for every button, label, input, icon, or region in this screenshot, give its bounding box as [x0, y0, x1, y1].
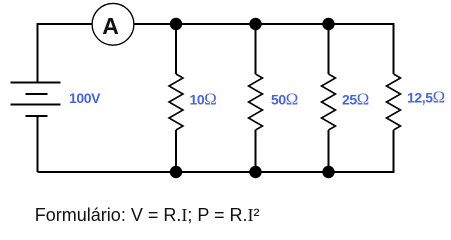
resistor R1 zigzag [169, 74, 183, 130]
resistor R4 zigzag [387, 74, 401, 130]
wire left edge upper (corner down to battery + plate) [37, 23, 39, 83]
wire branch 3 upper [328, 24, 330, 74]
svg-text:A: A [102, 13, 119, 39]
battery V1 plates [11, 83, 61, 117]
svg-text:100V: 100V [69, 90, 101, 106]
svg-text:10Ω: 10Ω [190, 89, 217, 108]
wire top-right from ammeter to top-right corner [134, 23, 394, 25]
wire left edge lower (battery - plate down to bottom corner) [37, 116, 39, 172]
svg-text:12,5Ω: 12,5Ω [407, 87, 445, 106]
wire right edge upper [393, 23, 395, 74]
svg-text:25Ω: 25Ω [342, 89, 369, 108]
junction node bottom 2 [249, 166, 261, 178]
resistor R2 zigzag [249, 74, 263, 130]
wire branch 2 upper [255, 24, 257, 74]
junction node top 3 [322, 18, 334, 30]
junction node bottom 1 [170, 166, 182, 178]
junction node top 2 [249, 18, 261, 30]
wire bottom rail [38, 171, 394, 173]
svg-text:50Ω: 50Ω [271, 89, 298, 108]
wire branch 1 upper [175, 24, 177, 74]
wire branch 1 lower [175, 130, 177, 172]
svg-text:Formulário: V = R.I; P = R.I²: Formulário: V = R.I; P = R.I² [35, 205, 260, 225]
junction node top 1 [170, 18, 182, 30]
wire right edge lower [393, 130, 395, 173]
ammeter A1 circle [92, 3, 134, 45]
wire top-left from battery corner to ammeter [38, 23, 93, 25]
resistor R3 zigzag [322, 74, 336, 130]
wire branch 2 lower [255, 130, 257, 172]
wire branch 3 lower [328, 130, 330, 172]
junction node bottom 3 [322, 166, 334, 178]
